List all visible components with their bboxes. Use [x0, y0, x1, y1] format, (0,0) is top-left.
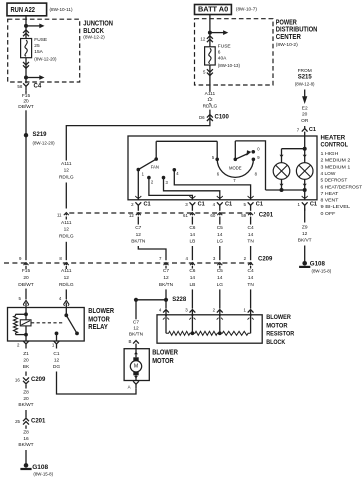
- svg-text:A111: A111: [205, 91, 216, 97]
- svg-text:12: 12: [207, 97, 213, 103]
- label MODE: [229, 165, 242, 170]
- svg-text:15A: 15A: [34, 49, 43, 55]
- current arrows pin 12: [200, 33, 212, 47]
- svg-text:F15: F15: [22, 93, 31, 99]
- connector C201 pin 61: [183, 213, 195, 218]
- svg-text:RD/LG: RD/LG: [59, 282, 74, 288]
- svg-text:C7: C7: [135, 225, 141, 231]
- svg-text:E2: E2: [302, 106, 308, 112]
- svg-text:12: 12: [200, 36, 205, 41]
- svg-text:S228: S228: [172, 297, 187, 303]
- wire S228 to blower motor: [134, 298, 166, 302]
- svg-text:58: 58: [17, 84, 22, 89]
- svg-text:BK/WT: BK/WT: [18, 442, 33, 448]
- switch MODE arm to 0: [235, 150, 255, 159]
- svg-text:9 BI-LEVEL: 9 BI-LEVEL: [321, 204, 351, 209]
- relay contact feed: [64, 308, 68, 318]
- svg-text:RELAY: RELAY: [88, 324, 108, 331]
- svg-text:RESISTOR: RESISTOR: [266, 331, 294, 338]
- label fan terminal 1: [142, 171, 145, 176]
- svg-text:MOTOR: MOTOR: [266, 322, 287, 329]
- svg-text:20: 20: [302, 112, 308, 118]
- svg-text:16: 16: [23, 436, 29, 442]
- svg-text:7 HEAT: 7 HEAT: [321, 191, 339, 196]
- relay coil: [14, 308, 28, 342]
- relay core: [20, 320, 31, 326]
- svg-text:0 OFF: 0 OFF: [321, 211, 336, 216]
- svg-text:(8W-15-8): (8W-15-8): [33, 472, 53, 477]
- svg-text:Z8: Z8: [23, 430, 29, 436]
- svg-text:RD/LG: RD/LG: [59, 174, 74, 180]
- wire from S215 arrow: [302, 90, 307, 105]
- svg-text:DG: DG: [53, 364, 60, 370]
- svg-text:MOTOR: MOTOR: [88, 316, 110, 323]
- svg-text:C4: C4: [34, 83, 42, 89]
- svg-text:F15: F15: [22, 268, 31, 274]
- wire fan t3 to C1 pin 4: [164, 178, 220, 200]
- node branch PDC: [208, 30, 228, 35]
- label FUSE 25 15A: [34, 37, 57, 61]
- label mode terminal 5: [212, 155, 215, 160]
- svg-text:RUN A22: RUN A22: [11, 5, 36, 14]
- label C201: [259, 212, 274, 218]
- fuse 25 15A: [21, 39, 32, 58]
- wire mode pivot rail to ground rail: [235, 141, 265, 190]
- label (8W-10-11): [50, 7, 74, 12]
- svg-text:D6: D6: [199, 115, 205, 120]
- blower motor relay outline: [8, 308, 85, 342]
- svg-text:RD/LG: RD/LG: [203, 104, 218, 110]
- connector C201 pin 11: [57, 212, 69, 217]
- svg-text:11: 11: [57, 212, 62, 217]
- svg-text:12: 12: [64, 168, 70, 174]
- svg-text:14: 14: [217, 275, 223, 281]
- motor pin B: [128, 339, 138, 349]
- svg-text:(8W-10-2): (8W-10-2): [276, 42, 299, 47]
- svg-text:14: 14: [248, 275, 254, 281]
- svg-text:(8W-10-11): (8W-10-11): [50, 7, 74, 12]
- svg-text:MOTOR: MOTOR: [152, 358, 174, 365]
- relay pin 4: [59, 296, 69, 307]
- svg-text:C209: C209: [31, 377, 46, 383]
- relay contact to pin 1: [55, 332, 59, 342]
- svg-text:C7: C7: [133, 320, 139, 326]
- wire RUN A22 to junction block: [25, 16, 27, 26]
- svg-text:12: 12: [129, 213, 134, 218]
- svg-text:C7: C7: [163, 268, 169, 274]
- connector C201 pin 59: [241, 213, 253, 218]
- svg-text:14: 14: [248, 232, 254, 238]
- svg-text:59: 59: [241, 213, 246, 218]
- svg-text:3 MEDIUM 1: 3 MEDIUM 1: [321, 164, 351, 169]
- svg-text:BK/VT: BK/VT: [298, 238, 312, 244]
- lamp right: [296, 163, 313, 180]
- wire A111 C100 to column: [66, 122, 210, 161]
- connector C209 pin 16: [15, 377, 46, 384]
- connector C201 pin 25: [15, 418, 46, 424]
- svg-text:12: 12: [163, 275, 169, 281]
- svg-text:TN: TN: [247, 282, 254, 288]
- svg-text:61: 61: [183, 213, 188, 218]
- svg-text:C6: C6: [189, 225, 195, 231]
- svg-text:S219: S219: [33, 132, 48, 138]
- svg-text:C1: C1: [256, 201, 263, 207]
- svg-text:C1: C1: [144, 201, 151, 207]
- connector C1 pin 4: [213, 196, 233, 211]
- svg-text:BK/WT: BK/WT: [18, 402, 33, 408]
- svg-text:BLOCK: BLOCK: [266, 339, 285, 346]
- switch MODE pivot: [234, 141, 238, 161]
- connector C1 pin 1: [298, 196, 318, 211]
- svg-text:12: 12: [302, 231, 308, 237]
- svg-text:A111: A111: [61, 220, 72, 226]
- switch MODE arc: [215, 158, 255, 178]
- svg-text:20: 20: [23, 358, 29, 364]
- svg-text:14: 14: [190, 275, 196, 281]
- svg-text:12: 12: [64, 275, 70, 281]
- svg-text:(8W-12-2): (8W-12-2): [83, 35, 105, 40]
- current arrows below fuse 25: [23, 58, 29, 78]
- relay pin 1: [52, 341, 60, 349]
- connector C209 pin 8: [59, 256, 68, 266]
- label POWER DISTRIBUTION CENTER: [276, 17, 318, 47]
- splice S228: [164, 297, 187, 303]
- svg-text:C100: C100: [215, 115, 230, 121]
- wire C7 upper: [131, 217, 166, 261]
- connector C209 pin 9: [19, 256, 28, 266]
- svg-text:BK/TN: BK/TN: [159, 282, 174, 288]
- svg-text:BK/TN: BK/TN: [129, 332, 144, 338]
- wire Z9 to ground: [297, 208, 312, 261]
- motor M1: [130, 349, 141, 381]
- wire Z8 16: [18, 425, 33, 463]
- svg-text:S215: S215: [298, 75, 313, 81]
- svg-text:BK: BK: [23, 364, 30, 370]
- relay pin 2: [17, 341, 29, 349]
- connector C209 row: [4, 262, 252, 264]
- svg-text:20: 20: [23, 396, 29, 402]
- connector C4 pin 58: [17, 83, 41, 90]
- lamp left lead: [280, 149, 284, 163]
- relay pin 5: [19, 296, 29, 307]
- lamp left bottom lead: [280, 179, 284, 192]
- svg-text:OR: OR: [301, 118, 309, 124]
- svg-text:C201: C201: [31, 419, 46, 425]
- svg-text:(8W-10-7): (8W-10-7): [236, 7, 258, 12]
- label heater control positions: [321, 151, 363, 216]
- junction block outline: [8, 19, 80, 82]
- svg-text:C1: C1: [198, 201, 205, 207]
- svg-text:C201: C201: [259, 212, 274, 218]
- svg-text:A111: A111: [61, 268, 72, 274]
- svg-text:(8W-12-20): (8W-12-20): [34, 57, 57, 62]
- svg-text:14: 14: [217, 232, 223, 238]
- label mode terminal 8: [255, 172, 258, 177]
- blower motor outline: [124, 349, 149, 381]
- svg-text:C1: C1: [225, 201, 232, 207]
- svg-text:LG: LG: [217, 239, 224, 245]
- relay link: [31, 322, 64, 324]
- svg-text:Z9: Z9: [302, 224, 308, 230]
- svg-text:(8W-10-13): (8W-10-13): [218, 63, 241, 68]
- wire Z8 20: [18, 385, 33, 418]
- wire lamp feed rail: [282, 136, 307, 151]
- svg-text:C1: C1: [310, 201, 317, 207]
- svg-text:M: M: [134, 364, 138, 370]
- motor pin A: [128, 381, 139, 389]
- wire C7 lower: [158, 266, 173, 309]
- svg-text:12: 12: [133, 326, 139, 332]
- svg-text:1 HIGH: 1 HIGH: [321, 151, 339, 156]
- svg-text:C1: C1: [53, 351, 59, 357]
- svg-text:LG: LG: [217, 282, 224, 288]
- svg-text:B: B: [128, 339, 131, 344]
- blower motor resistor block outline: [157, 315, 262, 343]
- resistor block pin 3: [185, 308, 195, 320]
- label mode terminal 7: [233, 178, 236, 183]
- resistor block pin 1: [243, 308, 253, 320]
- svg-text:C4: C4: [248, 225, 254, 231]
- svg-text:Z8: Z8: [23, 390, 29, 396]
- svg-text:20: 20: [23, 275, 29, 281]
- resistor block pin 4: [159, 308, 169, 320]
- connector C1 pin 5: [243, 196, 263, 211]
- svg-text:FUSE: FUSE: [34, 37, 47, 43]
- svg-text:FUSE: FUSE: [218, 43, 231, 49]
- svg-text:25: 25: [34, 43, 40, 49]
- svg-text:12: 12: [64, 227, 70, 233]
- svg-text:RD/LG: RD/LG: [59, 234, 74, 240]
- svg-text:60: 60: [210, 213, 215, 218]
- svg-text:6 HEAT/DEFROST: 6 HEAT/DEFROST: [321, 184, 363, 189]
- switch FAN terminal 4: [173, 168, 180, 176]
- svg-text:G108: G108: [310, 260, 326, 267]
- wire fan t2 to C1 pin 3: [149, 178, 193, 200]
- svg-text:Z1: Z1: [23, 351, 29, 357]
- svg-text:40A: 40A: [218, 55, 227, 61]
- svg-text:(8W-15-8): (8W-15-8): [312, 269, 332, 274]
- svg-text:(8W-12-20): (8W-12-20): [33, 141, 56, 146]
- heater control outline: [128, 136, 317, 200]
- splice S219: [24, 132, 55, 146]
- node branch junction block top: [24, 24, 45, 29]
- wire C4 lower: [247, 266, 254, 309]
- connector C1 pin 2: [131, 196, 151, 211]
- lamp right lead: [303, 149, 307, 163]
- wire C7 to motor: [128, 300, 143, 338]
- svg-text:14: 14: [190, 232, 196, 238]
- svg-text:G108: G108: [32, 464, 48, 471]
- svg-text:(8W-12-8): (8W-12-8): [295, 82, 315, 87]
- resistor element 1: [166, 315, 192, 336]
- current arrows above fuse 25: [23, 26, 29, 39]
- wire C6 upper: [189, 217, 196, 261]
- ground G108 bottom: [20, 463, 53, 477]
- node RUN A22 feed box: [7, 3, 47, 16]
- svg-text:6: 6: [218, 49, 221, 55]
- svg-text:C209: C209: [258, 257, 273, 263]
- connector C209 pin 4: [185, 256, 194, 266]
- label C209: [258, 257, 273, 263]
- label BLOWER MOTOR: [152, 350, 178, 366]
- svg-text:BLOWER: BLOWER: [266, 314, 291, 321]
- svg-text:8 VENT: 8 VENT: [321, 198, 339, 203]
- node branch junction block bottom: [24, 75, 45, 80]
- svg-text:C5: C5: [217, 225, 223, 231]
- resistor element 2: [191, 315, 220, 336]
- label JUNCTION BLOCK: [83, 19, 113, 40]
- power distribution center outline: [195, 19, 274, 85]
- wire fan t1 to C1 pin 2: [137, 170, 139, 200]
- label (8W-10-7): [236, 7, 258, 12]
- svg-text:BLOWER: BLOWER: [88, 308, 114, 315]
- svg-text:CONTROL: CONTROL: [321, 141, 349, 148]
- fuse 6 40A: [205, 47, 216, 65]
- wire A111 below PDC: [202, 85, 217, 114]
- svg-text:BLOCK: BLOCK: [83, 26, 104, 35]
- svg-text:C1: C1: [309, 127, 316, 133]
- wire fan t4 to C1 pin 5: [174, 170, 250, 200]
- label BLOWER MOTOR RELAY: [88, 308, 114, 331]
- svg-text:DB/WT: DB/WT: [18, 282, 34, 288]
- lamp right bottom lead: [303, 179, 307, 192]
- svg-text:FAN: FAN: [151, 165, 159, 170]
- wire Z1: [23, 351, 30, 376]
- svg-text:2 MEDIUM 2: 2 MEDIUM 2: [321, 158, 351, 163]
- svg-text:MODE: MODE: [229, 165, 242, 170]
- ground G108 right: [299, 260, 332, 273]
- resistor element 3: [218, 315, 251, 336]
- connector C209 pin 2: [244, 256, 253, 266]
- switch FAN terminal 2: [147, 176, 154, 185]
- svg-text:BLOWER: BLOWER: [152, 350, 178, 357]
- svg-text:A111: A111: [61, 161, 72, 167]
- svg-text:LB: LB: [189, 282, 195, 288]
- wire C5 lower: [216, 266, 223, 309]
- wire lamp ground rail: [266, 190, 305, 200]
- wire F15 to relay pin 5: [25, 266, 27, 299]
- connector C201 row: [69, 212, 255, 214]
- svg-text:A: A: [128, 385, 131, 390]
- label HEATER CONTROL: [321, 135, 349, 149]
- svg-text:C4: C4: [248, 268, 254, 274]
- connector C201 pin 12: [129, 213, 141, 218]
- svg-text:4 LOW: 4 LOW: [321, 171, 336, 176]
- wire C1 DG: [53, 351, 136, 394]
- label mode terminal 6: [217, 172, 220, 177]
- svg-text:5 DEFROST: 5 DEFROST: [321, 178, 348, 183]
- connector C1 pin 3: [185, 196, 205, 211]
- svg-text:TN: TN: [247, 239, 254, 245]
- svg-text:25: 25: [15, 419, 20, 424]
- wire C5 upper: [216, 217, 223, 261]
- connector C209 pin 7: [159, 256, 168, 266]
- connector C1 pin 7: [297, 126, 316, 136]
- resistor block pin 2: [213, 308, 223, 320]
- node FROM S215: [295, 68, 315, 86]
- svg-text:FROM: FROM: [298, 68, 312, 74]
- wire fan arm to mode 5: [156, 141, 217, 159]
- wire A111 to relay pin 4: [59, 266, 74, 299]
- switch FAN terminal 3: [162, 176, 169, 185]
- wire A111 label run 1: [59, 161, 74, 208]
- label FUSE 6 40A: [218, 43, 241, 68]
- switch FAN arm: [137, 141, 159, 171]
- svg-text:DB/WT: DB/WT: [18, 104, 34, 110]
- label FAN: [151, 165, 159, 170]
- wire C4 upper: [247, 217, 254, 261]
- svg-text:20: 20: [23, 99, 29, 105]
- svg-text:16: 16: [15, 378, 20, 383]
- svg-text:BK/TN: BK/TN: [131, 239, 146, 245]
- svg-text:LB: LB: [189, 239, 195, 245]
- node BATT A0 feed box: [195, 5, 232, 15]
- wire E2 label run: [301, 106, 309, 124]
- svg-text:12: 12: [54, 358, 60, 364]
- lamp left: [273, 163, 290, 180]
- wire BATT A0 to PDC: [209, 15, 211, 33]
- svg-text:C6: C6: [189, 268, 195, 274]
- wire C6 lower: [189, 266, 196, 309]
- label mode terminal 9: [257, 155, 260, 160]
- wire F15 label run: [18, 91, 34, 146]
- connector C201 pin 60: [210, 213, 222, 218]
- wire to C4: [25, 78, 27, 84]
- svg-text:BATT A0: BATT A0: [198, 6, 228, 13]
- wire A111 pin 11 to C209: [59, 217, 74, 261]
- connector C100 pin D6: [199, 114, 230, 122]
- svg-text:C5: C5: [217, 268, 223, 274]
- relay switch arm: [66, 315, 79, 335]
- label mode terminal 0: [257, 147, 260, 152]
- wire F15 S219 to C209: [18, 146, 34, 288]
- svg-text:12: 12: [136, 232, 142, 238]
- label BLOWER MOTOR RESISTOR BLOCK: [266, 314, 294, 346]
- connector C209 pin 3: [213, 256, 222, 266]
- current arrows pin 5: [203, 65, 213, 85]
- svg-text:CENTER: CENTER: [276, 32, 302, 41]
